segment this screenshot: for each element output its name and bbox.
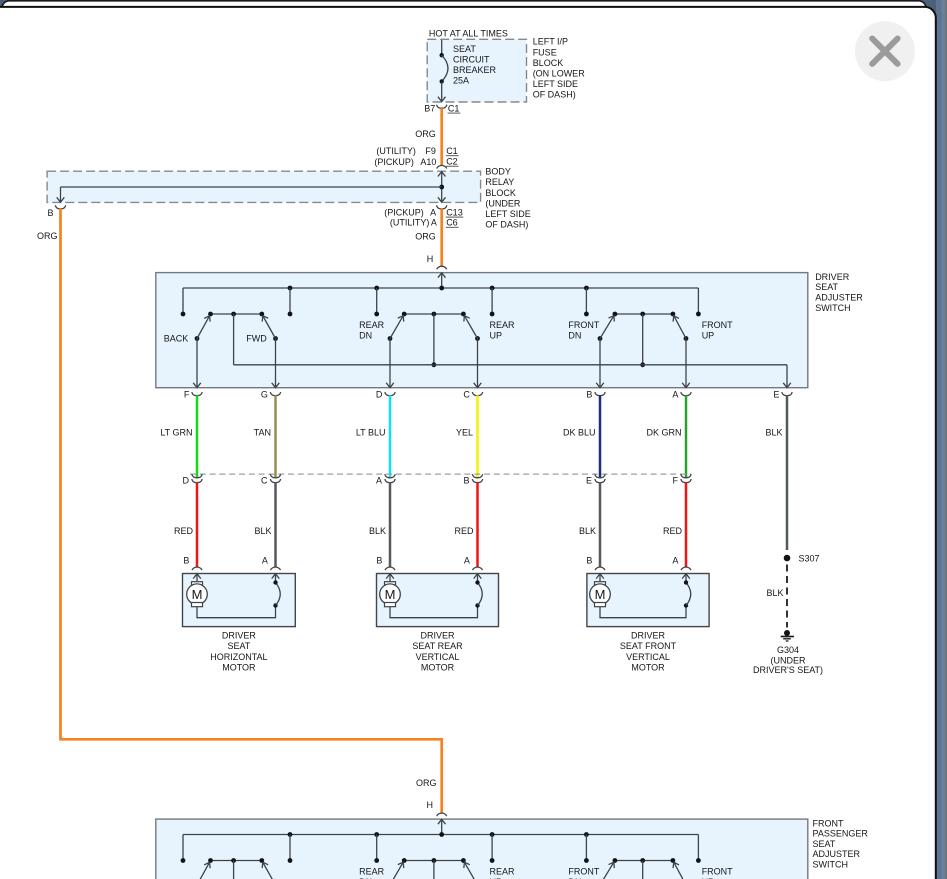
svg-text:FRONT: FRONT — [813, 818, 844, 828]
svg-text:BREAKER: BREAKER — [453, 65, 497, 75]
driver seat horizontal motor M1 terminal arrows — [193, 574, 279, 584]
svg-text:(UTILITY): (UTILITY) — [390, 218, 430, 228]
switch triangle contacts group 1 — [208, 312, 264, 317]
labels FRONT DN / FRONT UP — [568, 320, 733, 341]
svg-text:A: A — [431, 218, 437, 228]
connector C1 cup below fuse block — [437, 105, 447, 109]
wire entry arrow into driver switch — [438, 273, 446, 288]
label G304 (UNDER DRIVER'S SEAT) — [753, 645, 823, 675]
svg-text:LT BLU: LT BLU — [356, 427, 386, 437]
labels REAR DN / REAR UP — [359, 320, 515, 341]
svg-text:FWD: FWD — [246, 334, 267, 344]
center contact drops to return wire — [234, 314, 645, 367]
svg-text:ADJUSTER: ADJUSTER — [813, 849, 861, 859]
svg-text:FUSE: FUSE — [533, 47, 557, 57]
bus right corner drop to FRONT UP contact — [697, 835, 699, 861]
wire BLK pin E to splice S307 — [786, 395, 789, 550]
svg-text:VERTICAL: VERTICAL — [626, 652, 670, 662]
wire LT BLU segment — [389, 395, 392, 477]
svg-text:A: A — [672, 390, 678, 400]
svg-text:B: B — [376, 556, 382, 566]
wire ORG from breaker to body relay block — [440, 108, 443, 165]
wire motor loop in driver seat horizontal motor M1 — [197, 606, 276, 618]
labels BACK FWD — [164, 334, 268, 344]
pin labels (PICKUP) A / (UTILITY) A — [384, 207, 437, 227]
svg-text:C: C — [261, 476, 268, 486]
bus tap wires to contacts — [288, 835, 589, 863]
driver seat rear vertical motor M2 terminal arrows — [386, 574, 481, 584]
wire YEL segment — [476, 395, 479, 477]
wire BLK dashed to ground — [786, 565, 788, 628]
svg-text:SEAT: SEAT — [815, 282, 838, 292]
svg-text:(PICKUP): (PICKUP) — [374, 157, 414, 167]
svg-text:M: M — [385, 587, 396, 602]
svg-text:SWITCH: SWITCH — [813, 860, 849, 870]
inline connector halves at pin C — [270, 474, 280, 483]
connector cup pin E below driver switch — [782, 392, 792, 396]
svg-text:(PICKUP): (PICKUP) — [384, 207, 424, 217]
svg-text:UP: UP — [490, 330, 503, 340]
wire TAN segment — [274, 395, 277, 477]
svg-text:B: B — [586, 390, 592, 400]
motor M symbol in driver seat rear vertical motor M2 — [380, 582, 401, 607]
body relay block dashed box — [47, 171, 481, 202]
svg-text:OF DASH): OF DASH) — [533, 90, 576, 100]
switch poles and arms — [193, 314, 690, 388]
svg-text:F: F — [673, 476, 679, 486]
svg-text:A: A — [672, 556, 678, 566]
connector cap motor pin B — [192, 567, 202, 570]
svg-text:RED: RED — [663, 526, 683, 536]
svg-text:A: A — [262, 556, 268, 566]
svg-text:D: D — [376, 390, 383, 400]
wire ORG relay to driver switch — [440, 209, 443, 267]
svg-text:YEL: YEL — [456, 427, 473, 437]
svg-text:A: A — [464, 556, 470, 566]
pin labels (UTILITY) F9 / (PICKUP) A10 — [374, 146, 436, 167]
svg-text:DK GRN: DK GRN — [646, 427, 681, 437]
svg-text:DN: DN — [359, 330, 372, 340]
svg-text:LT GRN: LT GRN — [160, 427, 192, 437]
inline connector halves at pin A — [385, 474, 395, 483]
inline connector halves at pin F — [681, 474, 691, 483]
svg-text:F9: F9 — [425, 146, 436, 156]
wire RED segment to motor — [685, 482, 688, 567]
svg-text:(UTILITY): (UTILITY) — [376, 146, 416, 156]
connector cup pin C below driver switch — [472, 392, 482, 396]
switch poles and arms — [193, 860, 690, 879]
svg-text:TAN: TAN — [254, 427, 271, 437]
svg-text:BACK: BACK — [164, 334, 189, 344]
svg-text:REAR: REAR — [490, 320, 516, 330]
label LEFT I/P FUSE BLOCK location — [533, 37, 586, 100]
front passenger seat adjuster switch box U2 — [156, 819, 808, 879]
svg-text:SEAT: SEAT — [813, 839, 836, 849]
svg-text:(ON LOWER: (ON LOWER — [533, 69, 586, 79]
svg-text:LEFT SIDE: LEFT SIDE — [485, 209, 530, 219]
svg-text:DN: DN — [568, 330, 581, 340]
driver seat front vertical motor M3 box — [587, 574, 709, 627]
wire ORG long left branch to passenger switch — [61, 209, 442, 814]
svg-text:BLK: BLK — [579, 526, 596, 536]
svg-text:MOTOR: MOTOR — [421, 662, 455, 672]
wire inside relay block horizontal — [61, 186, 442, 188]
svg-text:HOT AT ALL TIMES: HOT AT ALL TIMES — [429, 28, 508, 38]
svg-text:A: A — [430, 207, 436, 217]
svg-text:OF DASH): OF DASH) — [485, 220, 528, 230]
wire BLK segment to motor — [274, 482, 277, 567]
svg-text:A10: A10 — [420, 157, 436, 167]
svg-text:C1: C1 — [448, 103, 460, 113]
labels FRONT DN / FRONT UP — [568, 866, 733, 879]
svg-text:A: A — [376, 476, 382, 486]
right background strip shading — [936, 0, 947, 879]
svg-text:FRONT: FRONT — [568, 320, 599, 330]
svg-text:ORG: ORG — [415, 129, 436, 139]
connector cup pin D below driver switch — [385, 392, 395, 396]
svg-text:C: C — [463, 390, 470, 400]
switch triangle contacts group 2 — [402, 858, 466, 863]
svg-text:DK BLU: DK BLU — [563, 427, 596, 437]
svg-text:PASSENGER: PASSENGER — [813, 829, 869, 839]
bus wire in driver switch — [183, 287, 698, 289]
switch triangle contacts group 3 — [613, 858, 676, 863]
svg-text:(UNDER: (UNDER — [771, 655, 806, 665]
node bus junctions — [288, 832, 589, 837]
svg-text:MOTOR: MOTOR — [222, 662, 256, 672]
wire LT GRN segment — [196, 395, 199, 477]
inline connector halves at pin E — [595, 474, 605, 483]
switch triangle contacts group 3 — [613, 312, 676, 317]
wire DK GRN segment — [685, 395, 688, 477]
driver seat front vertical motor M3 terminal arrows — [596, 574, 690, 584]
svg-text:ADJUSTER: ADJUSTER — [815, 293, 863, 303]
svg-text:C13: C13 — [446, 207, 463, 217]
motor M symbol in driver seat front vertical motor M3 — [590, 582, 611, 607]
inline connector halves at pin D — [192, 474, 202, 483]
svg-text:DRIVER'S SEAT): DRIVER'S SEAT) — [753, 665, 823, 675]
fuse block dashed box (LEFT I/P FUSE BLOCK) — [427, 39, 526, 102]
label driver seat rear vertical motor M2 — [412, 631, 463, 673]
connector cap at driver switch entry — [437, 266, 447, 269]
wire BLK segment to motor — [599, 482, 602, 567]
svg-text:B: B — [47, 208, 53, 218]
thermal breaker arc in driver seat front vertical motor M3 — [684, 580, 691, 607]
bus left corner drop to BACK contact — [182, 835, 184, 861]
svg-text:RELAY: RELAY — [485, 177, 514, 187]
driver seat rear vertical motor M2 box — [377, 574, 499, 627]
svg-text:LEFT SIDE: LEFT SIDE — [533, 79, 578, 89]
connector cap motor pin B — [595, 567, 605, 570]
svg-text:ORG: ORG — [37, 231, 58, 241]
svg-text:ORG: ORG — [416, 778, 437, 788]
svg-text:FRONT: FRONT — [702, 866, 733, 876]
svg-text:BODY: BODY — [485, 167, 511, 177]
svg-text:DRIVER: DRIVER — [631, 631, 666, 641]
connector cap at passenger switch entry — [437, 813, 447, 816]
svg-text:HORIZONTAL: HORIZONTAL — [210, 652, 267, 662]
wire RED segment to motor — [196, 482, 199, 567]
svg-text:FRONT: FRONT — [702, 320, 733, 330]
svg-text:BLK: BLK — [369, 526, 386, 536]
label DRIVER SEAT ADJUSTER SWITCH — [815, 272, 863, 313]
connector labels C13 / C6 underlined — [446, 207, 464, 227]
label driver seat front vertical motor M3 — [620, 631, 677, 673]
svg-text:SEAT: SEAT — [227, 641, 250, 651]
svg-text:B: B — [586, 556, 592, 566]
wire BLK segment to motor — [389, 482, 392, 567]
svg-text:DRIVER: DRIVER — [420, 631, 455, 641]
outer modal top edge (white bar with black border) — [2, 1, 926, 57]
connector cup pin G below driver switch — [270, 392, 280, 396]
svg-text:RED: RED — [454, 526, 474, 536]
svg-text:FRONT: FRONT — [568, 866, 599, 876]
svg-text:BLK: BLK — [765, 427, 782, 437]
svg-text:F: F — [184, 390, 190, 400]
svg-text:S307: S307 — [799, 554, 820, 564]
svg-text:VERTICAL: VERTICAL — [416, 652, 460, 662]
svg-text:RED: RED — [174, 526, 194, 536]
connector cap motor pin A — [473, 567, 483, 570]
svg-text:REAR: REAR — [490, 866, 516, 876]
node junction in relay block — [439, 185, 444, 190]
connector cap motor pin A — [271, 567, 281, 570]
connector cap motor pin B — [385, 567, 395, 570]
svg-text:SEAT REAR: SEAT REAR — [412, 641, 463, 651]
svg-text:SEAT FRONT: SEAT FRONT — [620, 641, 677, 651]
svg-text:REAR: REAR — [359, 866, 385, 876]
svg-text:D: D — [183, 476, 190, 486]
labels REAR DN / REAR UP — [359, 866, 515, 879]
svg-text:MOTOR: MOTOR — [631, 662, 665, 672]
svg-text:DRIVER: DRIVER — [815, 272, 850, 282]
connector cup pin A below driver switch — [681, 392, 691, 396]
inline connector halves at pin B — [472, 474, 482, 483]
svg-text:CIRCUIT: CIRCUIT — [453, 54, 490, 64]
svg-text:25A: 25A — [453, 76, 469, 86]
svg-text:REAR: REAR — [359, 320, 385, 330]
driver seat horizontal motor M1 box — [183, 574, 296, 627]
wire relay block left drop with arrow — [57, 187, 65, 202]
svg-text:(UNDER: (UNDER — [485, 198, 520, 208]
svg-text:C2: C2 — [446, 157, 458, 167]
connector label C1 underlined — [448, 103, 461, 113]
svg-text:UP: UP — [702, 330, 715, 340]
svg-text:SEAT: SEAT — [453, 44, 476, 54]
wire DK BLU segment — [599, 395, 602, 477]
label BODY RELAY BLOCK location — [485, 167, 530, 230]
label driver seat horizontal motor M1 — [210, 631, 267, 673]
svg-text:G304: G304 — [777, 645, 799, 655]
svg-text:C6: C6 — [446, 218, 458, 228]
svg-text:M: M — [595, 587, 606, 602]
wire motor loop in driver seat front vertical motor M3 — [600, 606, 686, 618]
motor M symbol in driver seat horizontal motor M1 — [187, 582, 208, 607]
center contact drops to return wire — [234, 861, 645, 879]
return wire to pin E — [234, 365, 791, 388]
svg-text:H: H — [427, 254, 434, 264]
thermal breaker arc in driver seat horizontal motor M1 — [273, 580, 280, 607]
switch triangle contacts group 1 — [208, 858, 264, 863]
wire RED segment to motor — [476, 482, 479, 567]
ground G304 symbol — [781, 630, 794, 641]
svg-text:ORG: ORG — [415, 231, 436, 241]
wire entry arrow into passenger switch — [438, 819, 446, 834]
bus wire in passenger switch — [183, 834, 698, 836]
svg-text:BLK: BLK — [766, 588, 783, 598]
splice S307 — [784, 555, 791, 562]
svg-text:B7: B7 — [424, 103, 435, 113]
svg-text:M: M — [192, 587, 203, 602]
svg-text:C1: C1 — [446, 146, 458, 156]
svg-text:DRIVER: DRIVER — [222, 631, 257, 641]
svg-text:B: B — [183, 556, 189, 566]
bus right corner drop to FRONT UP contact — [697, 288, 699, 314]
svg-text:G: G — [261, 390, 268, 400]
svg-text:SWITCH: SWITCH — [815, 303, 851, 313]
switch triangle contacts group 2 — [402, 312, 466, 317]
svg-text:E: E — [773, 390, 779, 400]
svg-text:E: E — [586, 476, 592, 486]
circuit breaker CB 25A symbol — [438, 40, 448, 102]
connector cup pin F below driver switch — [192, 392, 202, 396]
svg-text:LEFT I/P: LEFT I/P — [533, 37, 568, 47]
connector labels C1 / C2 underlined — [446, 146, 459, 167]
inline connector dashed line — [190, 473, 691, 475]
svg-text:BLOCK: BLOCK — [485, 188, 516, 198]
bus left corner drop to BACK contact — [182, 288, 184, 314]
wire motor loop in driver seat rear vertical motor M2 — [390, 606, 478, 618]
connector cap motor pin A — [681, 567, 691, 570]
svg-text:BLOCK: BLOCK — [533, 58, 564, 68]
connector cup below relay block left (pin B) — [55, 205, 65, 209]
label SEAT CIRCUIT BREAKER 25A — [453, 44, 497, 86]
connector cap at relay block entry — [437, 165, 447, 168]
thermal breaker arc in driver seat rear vertical motor M2 — [475, 580, 482, 607]
label FRONT PASSENGER SEAT ADJUSTER SWITCH — [813, 818, 869, 869]
close button — [855, 21, 915, 81]
svg-text:H: H — [427, 800, 434, 810]
bus tap wires to contacts — [288, 288, 589, 316]
svg-text:B: B — [463, 476, 469, 486]
wire inside relay block vertical with arrows — [438, 171, 446, 202]
connector cup below relay block center — [437, 205, 447, 209]
svg-text:BLK: BLK — [254, 526, 271, 536]
driver seat adjuster switch box U1 — [156, 273, 808, 388]
node bus junctions — [288, 286, 589, 291]
connector cup pin B below driver switch — [595, 392, 605, 396]
